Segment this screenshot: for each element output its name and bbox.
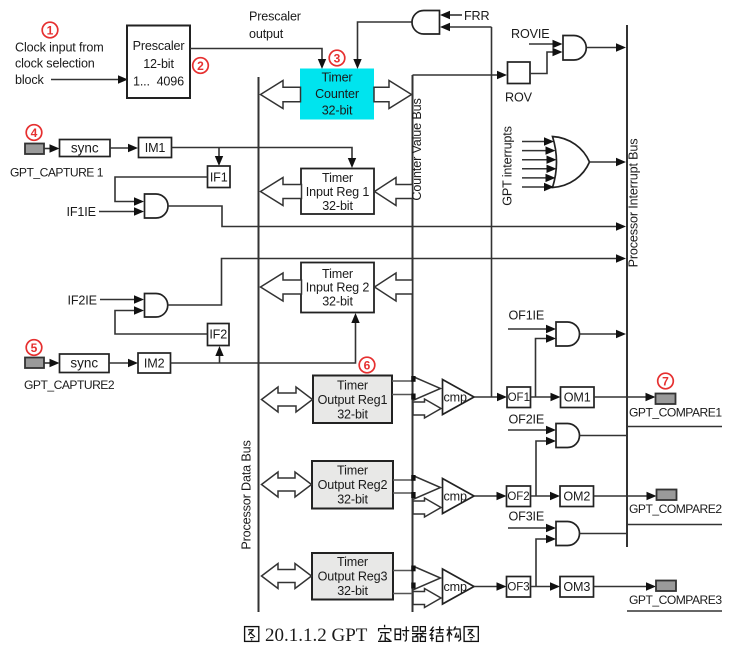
wire ROV to ROVIE AND gate xyxy=(530,52,553,74)
box IM2 xyxy=(138,353,171,373)
Counter Value Bus vertical line xyxy=(412,75,414,612)
AND gate OF3IE xyxy=(556,522,580,546)
svg-text:GPT_CAPTURE 1: GPT_CAPTURE 1 xyxy=(10,166,104,180)
svg-text:Output Reg1: Output Reg1 xyxy=(318,393,388,407)
open arrow counter value bus into Timer Input Reg 1 xyxy=(375,178,413,206)
svg-text:IM1: IM1 xyxy=(145,141,166,155)
wire IF1IE stub xyxy=(99,211,134,213)
wire Output Reg2 value lines to bus xyxy=(393,479,413,481)
wire IM2 to Timer Input Reg 2 (up into bottom) xyxy=(171,322,356,363)
wire FRR gate lower input from feed line xyxy=(449,26,492,28)
svg-text:3: 3 xyxy=(334,52,341,66)
wire Output Reg1 value lines to bus xyxy=(392,380,413,382)
svg-text:GPT_CAPTURE2: GPT_CAPTURE2 xyxy=(24,378,115,392)
svg-text:Timer: Timer xyxy=(322,267,353,281)
svg-text:sync: sync xyxy=(70,356,98,371)
wire cmp3 output to OF3 xyxy=(474,586,499,588)
wire branch IM1 down to IF1 xyxy=(218,148,220,159)
svg-text:Timer: Timer xyxy=(337,555,368,569)
circled number 3 xyxy=(329,50,345,66)
wire sync1 to IM1 xyxy=(110,147,130,149)
box Prescaler xyxy=(127,26,190,99)
svg-text:OF1: OF1 xyxy=(508,392,530,404)
pad GPT_COMPARE3 output xyxy=(656,581,676,592)
svg-text:32-bit: 32-bit xyxy=(322,104,353,118)
circled number 4 xyxy=(26,125,42,141)
box OM3 xyxy=(560,577,594,598)
wire OF2IE stub xyxy=(508,429,548,431)
svg-text:Processor Interrupt Bus: Processor Interrupt Bus xyxy=(627,139,641,268)
open arrow bus to cmp1 lower xyxy=(413,399,441,418)
svg-text:Processor Data Bus: Processor Data Bus xyxy=(240,440,254,549)
open arrow Timer Counter to counter value bus (right) xyxy=(374,81,412,109)
wire cmp1 output to OF1 xyxy=(474,396,499,398)
wire AND U1 output to interrupt bus xyxy=(168,206,618,227)
box OM2 xyxy=(560,486,594,507)
circled number 6 xyxy=(359,357,375,373)
open double arrow Output Reg3 / data bus xyxy=(262,564,312,589)
AND gate OF1IE xyxy=(556,322,580,346)
svg-text:block: block xyxy=(15,73,45,87)
box sync1 xyxy=(60,140,111,157)
wire Counter Value Bus top to ROV box xyxy=(413,74,500,76)
wire OF2 branch up to AND gate xyxy=(536,441,548,496)
svg-text:GPT_COMPARE2: GPT_COMPARE2 xyxy=(629,502,722,516)
svg-text:2: 2 xyxy=(197,59,204,73)
box sync2 xyxy=(60,354,110,373)
wire OF3IE stub xyxy=(508,527,548,529)
AND gate U2 (IF2 and IF2IE) xyxy=(145,294,168,318)
pad GPT_CAPTURE 1 input xyxy=(25,144,44,155)
svg-text:IF1IE: IF1IE xyxy=(67,205,96,219)
box IF1 xyxy=(208,166,231,188)
box IM1 xyxy=(139,138,172,158)
wire IM1 to Timer Input Reg 1 xyxy=(172,148,353,161)
open double arrow Output Reg1 / data bus xyxy=(262,387,313,412)
svg-text:OM3: OM3 xyxy=(563,580,590,594)
open arrow counter value bus into Timer Input Reg 2 xyxy=(375,273,413,301)
box OM1 xyxy=(561,387,595,408)
svg-text:Input Reg 2: Input Reg 2 xyxy=(306,281,370,295)
svg-text:5: 5 xyxy=(31,341,38,355)
wire GPT_COMPARE2 rail xyxy=(627,524,722,526)
wire OF2 to OM2 xyxy=(531,495,553,497)
svg-text:12-bit: 12-bit xyxy=(143,57,174,71)
svg-text:32-bit: 32-bit xyxy=(322,199,353,213)
wire OF1IE stub xyxy=(508,328,548,330)
svg-text:Timer: Timer xyxy=(337,464,368,478)
svg-text:Counter Value Bus: Counter Value Bus xyxy=(410,98,424,200)
comparator cmp3 xyxy=(443,569,475,604)
wire IF2IE stub xyxy=(100,299,134,301)
wire pad to sync1 xyxy=(44,148,52,150)
box IF2 xyxy=(208,324,230,346)
circled number 1 xyxy=(42,22,58,38)
box Timer Output Reg1 xyxy=(313,376,392,424)
svg-text:20.1.1.2 GPT: 20.1.1.2 GPT xyxy=(265,625,368,646)
svg-text:OF2: OF2 xyxy=(507,491,529,503)
svg-text:sync: sync xyxy=(71,141,99,156)
wire GPT_COMPARE1 rail xyxy=(627,426,722,428)
open double arrow Output Reg2 / data bus xyxy=(262,472,312,497)
wire OF1 branch up to AND gate xyxy=(536,339,549,398)
pad GPT_CAPTURE2 input xyxy=(25,358,44,369)
caption 图 20.1.1.2 GPT 定时器结构图 xyxy=(245,625,479,646)
svg-text:32-bit: 32-bit xyxy=(337,584,368,598)
box Timer Counter 32-bit xyxy=(300,69,374,120)
box Timer Output Reg2 xyxy=(312,461,393,509)
wire Prescaler output to Timer Counter xyxy=(190,49,322,61)
wire AND OF1IE output to interrupt bus xyxy=(580,333,619,335)
svg-text:1: 1 xyxy=(47,24,54,38)
box OF3 xyxy=(507,577,531,598)
svg-text:OM2: OM2 xyxy=(563,490,590,504)
circled number 7 xyxy=(658,373,674,389)
AND gate FRR (points left) xyxy=(412,11,440,35)
wire OM3 output to pad xyxy=(594,586,649,588)
wire pad to sync2 xyxy=(44,362,52,364)
wire ROVIE stub xyxy=(529,43,553,45)
svg-text:IM2: IM2 xyxy=(144,357,165,371)
Processor Interrupt Bus vertical line xyxy=(626,25,628,547)
svg-text:OF2IE: OF2IE xyxy=(509,412,545,426)
wire OF3 to OM3 xyxy=(531,586,553,588)
pad GPT_COMPARE2 output xyxy=(657,490,677,501)
open triangle bus input to cmp1 xyxy=(413,377,441,401)
svg-text:Prescaler: Prescaler xyxy=(249,10,301,24)
svg-text:32-bit: 32-bit xyxy=(322,295,353,309)
svg-text:Counter: Counter xyxy=(315,87,359,101)
wire clock input to Prescaler xyxy=(51,79,121,81)
open arrow Timer Input Reg 2 to data bus xyxy=(261,273,302,301)
open arrow Timer Counter to data bus (left) xyxy=(261,81,301,109)
wire FRR AND output to Timer Counter xyxy=(358,22,413,60)
AND gate OF2IE xyxy=(556,424,580,448)
open triangle bus input to cmp2 xyxy=(413,476,441,500)
wire FRR label stub xyxy=(448,14,462,16)
AND gate ROVIE xyxy=(563,36,586,61)
OR gate GPT interrupts xyxy=(553,137,590,188)
svg-text:1... 4096: 1... 4096 xyxy=(133,74,184,88)
circled number 2 xyxy=(193,58,209,74)
box OF1 xyxy=(507,387,531,408)
wire sync2 to IM2 xyxy=(109,362,130,364)
svg-text:FRR: FRR xyxy=(464,9,489,23)
svg-text:cmp: cmp xyxy=(444,391,467,405)
svg-text:IF1: IF1 xyxy=(210,171,228,185)
svg-text:Timer: Timer xyxy=(322,171,353,185)
box Timer Input Reg 1 xyxy=(301,169,374,215)
svg-text:7: 7 xyxy=(662,375,669,389)
wire IF1 output to AND gate IF1 xyxy=(115,177,208,202)
wire OF3 branch up to AND gate xyxy=(536,539,548,587)
svg-text:Timer: Timer xyxy=(322,71,353,85)
wire IF2 output to AND gate IF2 xyxy=(115,311,208,335)
svg-text:32-bit: 32-bit xyxy=(337,493,368,507)
svg-text:output: output xyxy=(249,27,284,41)
wire AND OF2IE output to interrupt bus xyxy=(580,435,628,437)
box Timer Output Reg3 xyxy=(312,553,393,600)
wire Output Reg3 value lines to bus xyxy=(393,570,413,572)
svg-text:cmp: cmp xyxy=(444,580,467,594)
svg-text:OM1: OM1 xyxy=(564,391,591,405)
open arrow bus to cmp3 lower xyxy=(413,589,441,608)
svg-text:6: 6 xyxy=(364,359,371,373)
svg-text:GPT_COMPARE1: GPT_COMPARE1 xyxy=(629,406,722,420)
svg-text:32-bit: 32-bit xyxy=(337,408,368,422)
svg-text:GPT interrupts: GPT interrupts xyxy=(501,126,515,206)
svg-text:Output Reg3: Output Reg3 xyxy=(318,570,388,584)
AND gate U1 (IF1 and IF1IE) xyxy=(145,194,169,218)
open arrow bus to cmp2 lower xyxy=(413,498,441,517)
svg-text:Input Reg 1: Input Reg 1 xyxy=(306,185,370,199)
svg-text:OF3: OF3 xyxy=(507,582,529,594)
wire AND OF3IE output to interrupt bus xyxy=(580,533,628,535)
svg-text:ROVIE: ROVIE xyxy=(511,27,549,41)
box Timer Input Reg 2 xyxy=(301,263,374,313)
open arrow Timer Input Reg 1 to data bus xyxy=(261,178,302,206)
svg-text:Prescaler: Prescaler xyxy=(133,39,185,53)
pad GPT_COMPARE1 output xyxy=(656,394,676,405)
svg-text:4: 4 xyxy=(31,126,38,140)
svg-text:Timer: Timer xyxy=(337,379,368,393)
circled number 5 xyxy=(26,340,42,356)
wire branch IM2 up to IF2 xyxy=(219,354,221,363)
svg-text:Output Reg2: Output Reg2 xyxy=(318,478,388,492)
open triangle bus input to cmp3 xyxy=(413,566,441,590)
wire OM1 output to pad xyxy=(594,396,648,398)
box OF2 xyxy=(507,486,531,507)
wire GPT_COMPARE3 rail xyxy=(627,610,722,612)
svg-text:OF3IE: OF3IE xyxy=(509,510,545,524)
svg-text:ROV: ROV xyxy=(505,91,533,105)
wire FRR feed vertical (cmp1 output up to AND gate) xyxy=(491,27,493,397)
comparator cmp1 xyxy=(443,380,475,415)
svg-text:Clock input from: Clock input from xyxy=(15,41,104,55)
svg-text:cmp: cmp xyxy=(444,490,467,504)
svg-text:clock selection: clock selection xyxy=(15,57,95,71)
wire OM2 output to pad xyxy=(594,495,650,497)
svg-text:GPT_COMPARE3: GPT_COMPARE3 xyxy=(629,593,722,607)
wire OR gate output to interrupt bus xyxy=(590,161,619,163)
wire OR input stubs xyxy=(522,142,548,188)
Processor Data Bus vertical line xyxy=(258,77,260,612)
svg-text:IF2IE: IF2IE xyxy=(68,294,97,308)
comparator cmp2 xyxy=(443,479,475,514)
svg-text:IF2: IF2 xyxy=(209,328,227,342)
wire AND U2 output to interrupt bus xyxy=(168,259,619,306)
box ROV xyxy=(508,62,531,84)
svg-text:OF1IE: OF1IE xyxy=(509,309,545,323)
wire cmp2 output to OF2 xyxy=(474,495,499,497)
wire OF1 to OM1 xyxy=(531,396,553,398)
wire ROVIE gate output to interrupt bus xyxy=(587,47,619,49)
